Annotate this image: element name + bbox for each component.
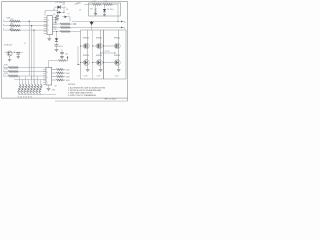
junction dots gates <box>92 46 93 47</box>
svg-text:NOTES:: NOTES: <box>68 84 76 86</box>
resistor R5 <box>103 4 112 6</box>
svg-text:▸: ▸ <box>3 73 4 76</box>
wire lower row 3 <box>3 75 46 77</box>
ground U2 <box>48 85 50 88</box>
wire +V rail <box>72 21 118 23</box>
svg-text:C1: C1 <box>79 10 81 12</box>
resistor grid 8 <box>38 84 42 94</box>
svg-text:IRFZ44: IRFZ44 <box>83 37 89 39</box>
svg-text:SW2: SW2 <box>4 68 8 70</box>
resistor RG1 <box>60 23 70 25</box>
wire box to rail <box>117 5 119 22</box>
resistor R4 <box>92 4 101 6</box>
resistor grid 1 <box>17 84 21 94</box>
wire half-bridge mid 3 <box>118 48 120 62</box>
svg-text:IRFZ44: IRFZ44 <box>83 55 89 57</box>
svg-text:▸: ▸ <box>3 18 4 21</box>
wire U2 out 4 <box>52 79 56 81</box>
wire output tap <box>101 52 115 54</box>
wire input row 3 <box>3 29 47 31</box>
capacitor C5 <box>16 52 20 54</box>
svg-text:Q1: Q1 <box>53 9 55 11</box>
terminal J3 <box>121 27 123 29</box>
resistor RO3 <box>56 76 63 78</box>
ground under Q6 <box>86 68 90 70</box>
wire grid column 4 <box>28 80 30 85</box>
svg-text:▸: ▸ <box>3 27 4 30</box>
wire driver row 3 <box>53 31 81 33</box>
resistor grid 3 <box>23 84 27 94</box>
svg-text:0: 0 <box>48 25 49 27</box>
wire cluster row <box>5 51 24 53</box>
wire grid column 1 <box>19 76 21 84</box>
module box right <box>104 30 127 79</box>
wire into box <box>84 4 92 6</box>
svg-text:▸: ▸ <box>3 69 4 72</box>
wire grid column 6 <box>34 80 36 85</box>
wire lower row 1 <box>3 67 46 69</box>
capacitor C3 <box>61 49 63 52</box>
wire input row 2 <box>3 25 47 27</box>
wire U1 top to driver <box>44 11 46 16</box>
resistor R3 <box>10 29 21 31</box>
wire half-bridge mid 1 <box>87 48 89 62</box>
ground C5 <box>17 56 20 58</box>
svg-text:R8: R8 <box>63 4 65 6</box>
diode D3 <box>104 5 106 9</box>
svg-text:▸: ▸ <box>3 23 4 26</box>
transistor Q5 <box>114 43 120 49</box>
wire driver row 2 to M- terminal <box>53 27 122 29</box>
wire lower row 2 <box>3 71 46 73</box>
svg-text:4K7: 4K7 <box>54 86 57 88</box>
ground in box <box>95 12 97 15</box>
svg-text:Q2: Q2 <box>53 14 55 16</box>
wire source Q7 <box>100 64 102 69</box>
wire grid column 3 <box>25 76 27 84</box>
transistor Q1 driver <box>59 11 62 14</box>
wire power flag stub <box>91 25 93 30</box>
svg-text:SW3: SW3 <box>4 73 8 75</box>
diode D2 <box>55 38 58 41</box>
resistor grid 5 <box>29 84 33 94</box>
svg-text:+24V: +24V <box>76 2 81 4</box>
wire source Q6 <box>87 64 89 69</box>
wire gate feed vertical <box>77 46 79 65</box>
wire bus vertical 3 <box>33 30 35 83</box>
svg-text:SW1: SW1 <box>4 64 8 66</box>
svg-text:4: 4 <box>47 72 48 74</box>
resistor grid 2 <box>20 84 24 94</box>
svg-text:1: 1 <box>47 82 48 84</box>
svg-text:10u: 10u <box>65 54 68 56</box>
resistor R7 <box>58 60 66 62</box>
wire drain Q4 <box>100 30 102 45</box>
wire bus vertical 2 <box>31 26 33 80</box>
resistor RL1 <box>8 66 18 68</box>
resistor R2 <box>10 25 21 27</box>
resistor RL2 <box>8 70 18 72</box>
wire input row 1 <box>3 20 47 22</box>
transistor Q7 <box>96 60 102 66</box>
svg-text:IRFZ44: IRFZ44 <box>114 55 120 57</box>
svg-text:IRFZ44: IRFZ44 <box>96 55 102 57</box>
wire grid column 5 <box>31 76 33 84</box>
wire bus vertical 1 <box>28 21 30 76</box>
ground lower mid <box>60 56 64 58</box>
wire drain Q3 <box>87 30 89 45</box>
svg-text:R6: R6 <box>90 9 92 11</box>
resistor grid 6 <box>32 84 36 94</box>
transistor Q3 <box>83 43 89 49</box>
transistor Q9 <box>7 51 12 56</box>
ground below U1 <box>48 35 50 39</box>
wire U2 out 2 <box>52 72 56 74</box>
power box outline <box>89 3 121 16</box>
svg-text:4. SUPPLY 24V DC 10A MAXIMUM: 4. SUPPLY 24V DC 10A MAXIMUM <box>68 94 96 97</box>
resistor R1 <box>10 20 21 22</box>
svg-text:C4 100u: C4 100u <box>107 9 113 11</box>
svg-text:Q9 BC557: Q9 BC557 <box>4 45 12 47</box>
svg-text:C7: C7 <box>24 43 26 45</box>
wire grid column 7 <box>37 76 39 84</box>
wire grid column 8 <box>40 80 42 85</box>
wire gate stubs <box>81 45 84 47</box>
wire U2 out 1 <box>52 69 56 71</box>
svg-text:IRFZ44: IRFZ44 <box>114 37 120 39</box>
wire source Q8 <box>118 64 120 69</box>
wire half-bridge mid 2 <box>100 48 102 62</box>
svg-text:1: 1 <box>48 30 49 32</box>
resistor RO2 <box>56 72 63 74</box>
module box left <box>81 30 104 79</box>
terminal J2 <box>118 21 121 23</box>
resistor RO4 <box>56 79 63 81</box>
svg-text:IRFZ44: IRFZ44 <box>96 37 102 39</box>
ground mid column <box>55 49 59 51</box>
outer bottom edge <box>55 100 128 102</box>
op-amp U2 logic IC <box>46 68 52 86</box>
border frame <box>2 2 128 102</box>
svg-text:5: 5 <box>47 77 48 79</box>
transistor Q8 <box>114 60 120 66</box>
svg-text:100n: 100n <box>59 46 63 48</box>
ground C6 <box>56 18 59 20</box>
wire mid column <box>56 32 58 39</box>
resistor RG2 <box>60 27 70 29</box>
transistor Q4 <box>96 43 102 49</box>
node +5V <box>67 58 69 61</box>
svg-text:4: 4 <box>48 20 49 22</box>
wire driver row 1 <box>53 23 77 25</box>
op-amp U1 logic IC <box>47 16 53 35</box>
wire lower row 4 <box>14 79 46 81</box>
svg-text:1K 1K 1K 1K 1K 1K: 1K 1K 1K 1K 1K 1K <box>18 97 34 99</box>
resistor grid 7 <box>35 84 39 94</box>
wire grid column 2 <box>22 80 24 85</box>
resistor grid 4 <box>26 84 30 94</box>
svg-text:REV 1.2 2004: REV 1.2 2004 <box>105 98 116 100</box>
module mid divider <box>92 30 94 79</box>
ground Q9 <box>9 56 11 59</box>
junction bus taps <box>29 21 30 22</box>
transistor Q2 driver <box>65 16 68 19</box>
power flag <box>90 22 94 25</box>
resistor RL3 <box>8 75 18 77</box>
resistor RG3 <box>60 31 70 33</box>
wire drain Q5 <box>118 30 120 45</box>
capacitor C6 <box>57 9 59 16</box>
ground under Q7 <box>99 68 103 70</box>
wire U2 out 3 <box>52 76 56 78</box>
resistor R6 vertical <box>95 5 97 8</box>
wire grid bus <box>18 94 42 96</box>
capacitor C2 <box>55 44 59 46</box>
ground under Q8 <box>117 68 121 70</box>
wire U2 top <box>48 61 50 68</box>
resistor RO1 <box>56 69 63 71</box>
transistor Q6 <box>83 60 89 66</box>
svg-text:▸: ▸ <box>3 65 4 68</box>
svg-text:M-: M- <box>123 27 126 29</box>
